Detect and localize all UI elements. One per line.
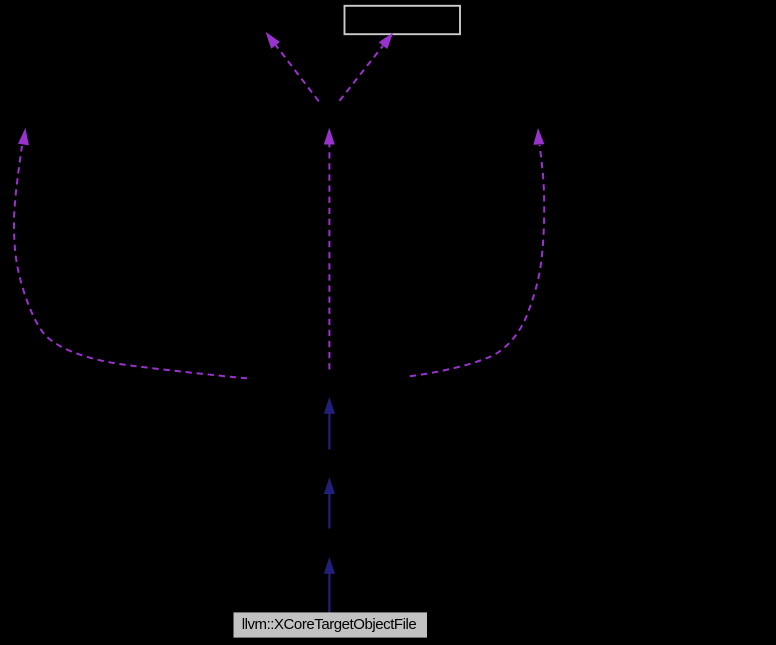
- wire: inheritance arrow 3 (row4 <- llvm::XCoreTargetObjectFile): [324, 557, 335, 612]
- arrowhead up: [324, 128, 335, 145]
- arrowhead up: [324, 397, 335, 414]
- wire: inheritance arrow 1 (row2 <- row3): [324, 397, 335, 450]
- node llvm::XCoreTargetObjectFile (grey filled, bottom): [234, 612, 428, 637]
- arrowhead up (slight left lean): [533, 128, 544, 145]
- wire: dashed usage edge from center node up-left to top-left node: [266, 32, 319, 101]
- arrowhead up: [324, 557, 335, 574]
- wire: center vertical dashed usage edge: [324, 128, 335, 370]
- arrowhead up-right: [379, 33, 394, 49]
- node: undocumented class (grey border, top): [345, 6, 461, 34]
- arrowhead up (slight right lean): [18, 128, 29, 145]
- arrowhead up-left: [266, 32, 280, 49]
- wire: dashed usage edge from center node up-right to grey-border node: [340, 33, 394, 101]
- svg-text:llvm::XCoreTargetObjectFile: llvm::XCoreTargetObjectFile: [242, 616, 417, 633]
- arrowhead up: [324, 477, 335, 494]
- wire: right curved dashed usage edge: [410, 128, 544, 376]
- wire: left curved dashed usage edge: [14, 128, 247, 379]
- wire: inheritance arrow 2 (row3 <- row4): [324, 477, 335, 528]
